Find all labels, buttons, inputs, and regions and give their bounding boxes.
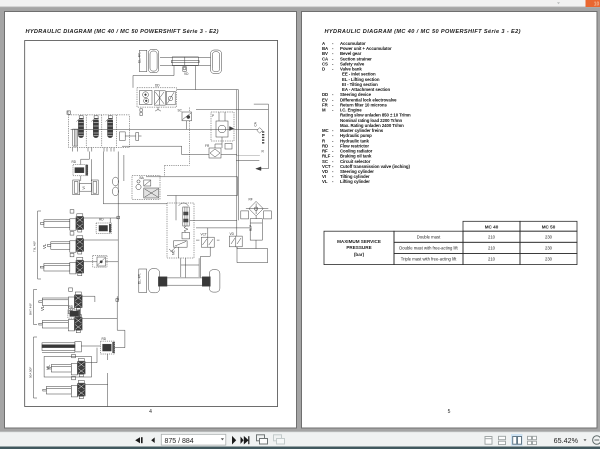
svg-text:T6L 46F: T6L 46F bbox=[33, 241, 37, 252]
svg-text:230: 230 bbox=[545, 246, 553, 251]
box around middle cylinder bbox=[44, 357, 91, 378]
legend list bbox=[322, 41, 411, 184]
svg-text:HYDRAULIC DIAGRAM (MC 40 / MC: HYDRAULIC DIAGRAM (MC 40 / MC 50 POWERSH… bbox=[325, 29, 521, 35]
page number box bbox=[161, 434, 226, 445]
mast group 1 bracket bbox=[38, 211, 41, 279]
single page layout icon bbox=[485, 437, 492, 445]
steering cylinder VD bbox=[172, 57, 198, 66]
prev-page button bbox=[151, 437, 155, 443]
mc outlet line bbox=[190, 219, 237, 221]
svg-text:65.42%: 65.42% bbox=[554, 436, 579, 445]
continuous layout icon bbox=[499, 436, 506, 444]
trunnion BV bbox=[183, 67, 187, 72]
svg-text:210: 210 bbox=[488, 235, 496, 240]
spool EA bbox=[108, 119, 113, 138]
long drop wires bbox=[90, 159, 92, 181]
check valve g1 bbox=[93, 255, 107, 267]
wire vct down bbox=[201, 247, 211, 278]
svg-text:MC: MC bbox=[172, 249, 176, 255]
lifting cylinder VL3b bbox=[48, 367, 52, 369]
pilot dashed line bbox=[165, 108, 190, 177]
mast group 3 bracket bbox=[34, 337, 38, 398]
svg-text:MAXIMUM SERVICE: MAXIMUM SERVICE bbox=[337, 239, 381, 244]
svg-text:RF: RF bbox=[249, 198, 253, 202]
last-page button bbox=[241, 436, 250, 445]
svg-text:Double mast with free-acting l: Double mast with free-acting lift bbox=[399, 246, 458, 251]
junction node a bbox=[117, 216, 120, 219]
hydraulic tank R bbox=[236, 155, 260, 157]
bank section ports bbox=[79, 116, 83, 119]
svg-text:VCT: VCT bbox=[201, 233, 207, 237]
svg-text:DD: DD bbox=[155, 84, 160, 88]
svg-text:(bar): (bar) bbox=[354, 252, 365, 257]
facing continuous layout icon bbox=[528, 436, 537, 444]
electrovalve EV bbox=[225, 144, 232, 150]
wire bank to restrictor bbox=[81, 152, 90, 165]
label EL.4R bottom bbox=[139, 269, 147, 293]
svg-text:10: 10 bbox=[594, 2, 600, 8]
svg-text:FR: FR bbox=[205, 144, 210, 148]
return drop line bbox=[267, 104, 269, 169]
lifting cylinder VL1b bbox=[47, 245, 51, 247]
wheel front right bbox=[211, 50, 222, 74]
svg-text:5: 5 bbox=[448, 409, 451, 415]
wire steering to pump bbox=[177, 89, 239, 91]
group3 wires bbox=[115, 347, 125, 349]
wheel rear right bbox=[209, 270, 220, 292]
svg-text:VL: VL bbox=[322, 179, 328, 184]
spool EI bbox=[93, 119, 98, 138]
zoom out button bbox=[593, 436, 600, 444]
svg-text:MC 50: MC 50 bbox=[542, 225, 556, 230]
flow restrictor RD g2 bbox=[68, 309, 80, 318]
svg-text:RD: RD bbox=[99, 218, 104, 222]
first-page button bbox=[135, 437, 142, 443]
svg-text:HYDRAULIC DIAGRAM (MC 40 / MC: HYDRAULIC DIAGRAM (MC 40 / MC 50 POWERSH… bbox=[26, 29, 219, 35]
inching valve bbox=[229, 236, 242, 247]
next-page button bbox=[232, 436, 236, 445]
suction strainer CA bbox=[257, 128, 263, 134]
svg-text:RLF: RLF bbox=[249, 225, 253, 231]
orange button top right bbox=[586, 0, 600, 7]
svg-text:SC: SC bbox=[178, 109, 183, 113]
wire inching loop bbox=[237, 247, 268, 263]
master cylinder MC bbox=[167, 203, 194, 258]
copy page icon disabled bbox=[274, 435, 285, 444]
return filter FR bbox=[209, 148, 221, 158]
brake hub left bbox=[158, 277, 167, 286]
bottom toolbar bbox=[0, 432, 600, 447]
cooling radiator RF bbox=[249, 201, 263, 216]
junction node b bbox=[116, 299, 119, 302]
svg-text:4: 4 bbox=[149, 409, 152, 415]
svg-text:Triple mast with free-acting l: Triple mast with free-acting lift bbox=[401, 257, 457, 262]
svg-text:BHT 46F: BHT 46F bbox=[29, 303, 33, 315]
group1 wires bbox=[84, 217, 119, 219]
svg-text:P: P bbox=[212, 114, 214, 118]
label EL.4R top bbox=[139, 50, 146, 71]
component letter labels bbox=[67, 52, 264, 341]
main pressure line bbox=[71, 128, 258, 130]
brake hub right bbox=[202, 277, 210, 286]
wire pump to filter bbox=[221, 137, 223, 148]
wire axle to steering bbox=[133, 66, 174, 88]
inlet section EE bbox=[73, 129, 78, 146]
svg-text:Lifting cylinder: Lifting cylinder bbox=[340, 179, 370, 184]
return arrow bbox=[257, 168, 268, 170]
circuit selector SC bbox=[182, 112, 192, 121]
facing layout icon active bbox=[511, 434, 523, 446]
flow restrictor RD g3 bbox=[101, 341, 115, 354]
topbar caret bbox=[557, 2, 560, 4]
valve bank D bbox=[69, 115, 130, 148]
svg-text:M: M bbox=[322, 108, 326, 113]
group2 wires bbox=[82, 295, 95, 297]
wire mc down bbox=[185, 258, 187, 277]
svg-text:210: 210 bbox=[488, 246, 496, 251]
gearbox bbox=[180, 258, 182, 277]
diagram frame bbox=[25, 41, 278, 407]
svg-text:EL. 4R.: EL. 4R. bbox=[138, 52, 142, 63]
svg-text:RD: RD bbox=[72, 160, 77, 164]
bank outlet line bbox=[122, 146, 209, 154]
svg-text:875 / 884: 875 / 884 bbox=[165, 438, 194, 445]
wire axle right leg bbox=[195, 66, 197, 90]
lifting cylinder VL2a bbox=[39, 301, 43, 303]
steering column bbox=[157, 107, 159, 110]
svg-text:RD: RD bbox=[102, 337, 107, 341]
flow restrictor RD1 bbox=[73, 165, 88, 176]
lifting cylinder VL2b bbox=[39, 323, 43, 325]
svg-text:D: D bbox=[67, 111, 69, 115]
svg-text:EL. 4R.: EL. 4R. bbox=[138, 273, 142, 284]
wheel front left bbox=[148, 49, 158, 72]
left page bbox=[5, 12, 297, 429]
svg-text:VD: VD bbox=[184, 72, 189, 76]
flow restrictor RD g1 bbox=[96, 223, 111, 233]
power unit BA with accumulator A bbox=[132, 176, 160, 200]
axle lines bbox=[160, 56, 211, 58]
svg-text:VI: VI bbox=[82, 186, 86, 189]
spool EL bbox=[78, 119, 83, 138]
bank bottom ports bbox=[72, 148, 74, 152]
mast group 2 bracket bbox=[34, 290, 38, 325]
wire suction top bbox=[196, 109, 268, 111]
wire restrictor to tilt cylinder bbox=[80, 176, 82, 181]
lifting cylinder VL3c bbox=[43, 389, 47, 391]
inching line double bbox=[236, 90, 238, 237]
hydraulic pump P bbox=[211, 112, 234, 141]
transmission housing bbox=[146, 177, 238, 196]
breather bbox=[112, 177, 118, 186]
junction wire mid bbox=[117, 299, 118, 301]
svg-text:MC 40: MC 40 bbox=[485, 225, 499, 230]
svg-text:Double mast: Double mast bbox=[417, 235, 441, 240]
tilting cylinder VI bbox=[73, 180, 80, 195]
svg-text:D: D bbox=[322, 67, 325, 72]
rear axle bbox=[167, 277, 202, 279]
free lift cylinder g3a bbox=[42, 343, 75, 351]
bottom dark strip bbox=[0, 447, 600, 449]
svg-text:RD: RD bbox=[69, 305, 74, 309]
copy page icon bbox=[257, 435, 268, 444]
lifting cylinder VL1c bbox=[40, 266, 44, 268]
svg-text:VL: VL bbox=[42, 243, 47, 249]
wheel rear left bbox=[149, 269, 160, 293]
svg-text:VL: VL bbox=[40, 305, 45, 311]
lifting cylinder VL1a bbox=[40, 223, 44, 225]
svg-text:230: 230 bbox=[545, 257, 553, 262]
svg-text:PRESSURE: PRESSURE bbox=[346, 245, 371, 250]
svg-text:VD: VD bbox=[230, 232, 235, 236]
svg-text:50A 50F: 50A 50F bbox=[29, 367, 33, 378]
braking oil tank RLF bbox=[250, 219, 262, 240]
svg-text:210: 210 bbox=[488, 257, 496, 262]
steering ports bbox=[140, 109, 143, 112]
top toolbar strip bbox=[0, 0, 600, 7]
relief valve CS bbox=[120, 132, 126, 141]
table bbox=[324, 221, 577, 264]
steering device DD bbox=[137, 88, 177, 107]
cutoff transmission valve VCT bbox=[201, 237, 214, 247]
vct feed line bbox=[196, 227, 250, 229]
wire return top bbox=[254, 103, 269, 105]
right page bbox=[302, 12, 598, 429]
svg-text:230: 230 bbox=[545, 235, 553, 240]
